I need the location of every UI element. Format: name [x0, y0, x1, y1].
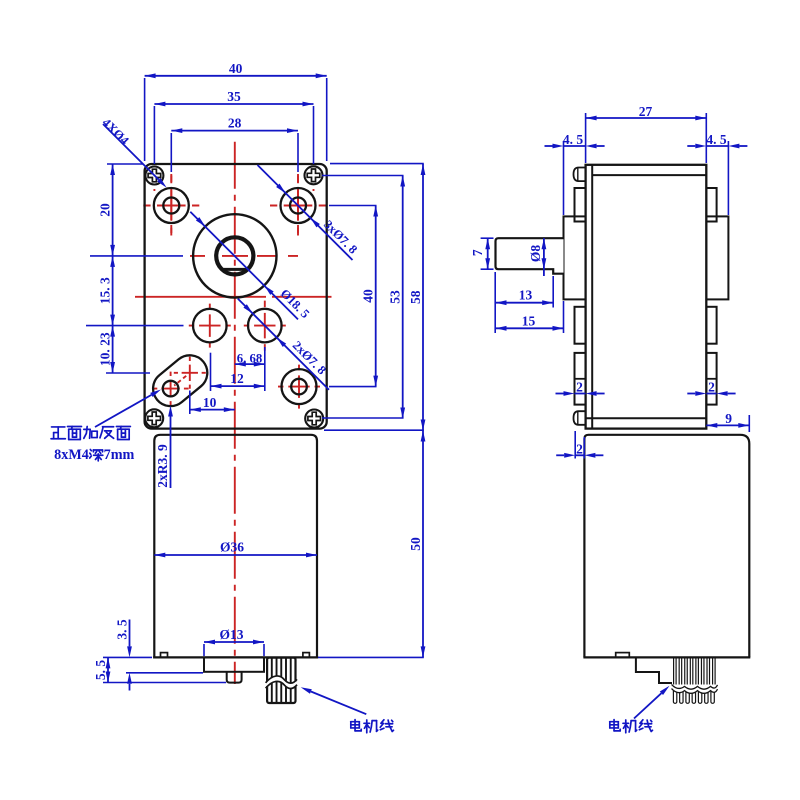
- screw bottom-right: [305, 410, 323, 428]
- dim 5.5: [93, 657, 110, 682]
- side cover plate line: [591, 165, 593, 429]
- centerline cross slot hole: [153, 372, 189, 406]
- svg-text:10. 23: 10. 23: [98, 332, 113, 366]
- svg-text:20: 20: [98, 203, 113, 217]
- dim 58 right: [324, 164, 425, 431]
- centerline cross top-right hole: [270, 176, 326, 236]
- svg-text:15: 15: [522, 314, 536, 329]
- svg-text:28: 28: [228, 116, 242, 131]
- centerline cross mid-left hole: [189, 304, 231, 348]
- centerline horizontal idler axis: [135, 296, 332, 298]
- svg-text:Ø36: Ø36: [220, 540, 244, 555]
- centerline ext top-left hole col: [170, 174, 172, 233]
- side gearbox boss right: [706, 216, 728, 299]
- svg-text:9: 9: [725, 411, 732, 426]
- label 4XO4 leader: [99, 115, 168, 189]
- motor wire bundle front view: [266, 658, 297, 703]
- centerline cross bottom-right hole: [278, 365, 320, 409]
- label motor wires left: [300, 685, 394, 733]
- side motor body: [583, 435, 750, 658]
- svg-text:4. 5: 4. 5: [706, 132, 727, 147]
- motor rear shaft stub: [227, 672, 242, 683]
- dim 12: [211, 353, 265, 391]
- side gearbox tab upper-right: [706, 188, 716, 222]
- hole bottom-right O7.8: [282, 369, 317, 404]
- output shaft circle with D-flat: [216, 237, 253, 274]
- dim 40 right: [329, 206, 378, 387]
- side gearbox tab lower-right: [706, 353, 716, 405]
- ext motor bottom: [103, 656, 152, 658]
- centerline horizontal through gear center: [190, 255, 299, 257]
- motor end cap: [204, 657, 264, 671]
- dim 28: [171, 116, 298, 172]
- svg-text:2: 2: [576, 441, 583, 456]
- dim 2 bottom: [556, 431, 603, 459]
- svg-text:2: 2: [576, 380, 583, 395]
- dim 53 right: [322, 176, 405, 419]
- dim 35: [154, 89, 313, 164]
- svg-text:53: 53: [388, 290, 403, 304]
- svg-text:50: 50: [408, 537, 423, 551]
- svg-text:2: 2: [708, 380, 715, 395]
- dim 10: [190, 391, 235, 415]
- label 2xO7.8 leader: [238, 299, 329, 390]
- svg-text:40: 40: [229, 61, 243, 76]
- side gearbox tab upper-left: [575, 188, 586, 222]
- svg-text:Ø8: Ø8: [528, 245, 543, 263]
- hole top-left O7.8: [154, 188, 189, 223]
- svg-text:58: 58: [408, 290, 423, 304]
- svg-text:3. 5: 3. 5: [115, 619, 130, 640]
- svg-text:6. 68: 6. 68: [237, 351, 263, 365]
- dim O8 shaft: [528, 238, 546, 276]
- centerline slot axis: [174, 376, 186, 386]
- centerline cross top-left hole: [143, 176, 199, 236]
- dim 2 tab right: [687, 380, 735, 396]
- dim 6.68: [235, 347, 265, 391]
- dim 7 shaft: [470, 238, 494, 269]
- side inner bottom line: [586, 417, 707, 419]
- dim 50 right: [318, 431, 425, 658]
- side cap steps: [636, 657, 672, 683]
- side gearbox tab mid-left: [575, 307, 586, 344]
- motor body front view: [153, 435, 318, 658]
- side output shaft: [496, 238, 564, 274]
- dim O13: [204, 627, 264, 656]
- brush tab left: [161, 653, 168, 658]
- svg-text:Ø13: Ø13: [219, 627, 243, 642]
- label 3xO7.8 leader: [258, 165, 361, 260]
- centerline top-right screw: [313, 166, 315, 191]
- dim 20 left: [90, 164, 183, 256]
- slot obround 2xR3.9: [146, 348, 214, 413]
- svg-text:2xR3. 9: 2xR3. 9: [155, 444, 170, 488]
- dim 15: [496, 301, 564, 333]
- centerline vertical main axis (left view): [234, 142, 236, 684]
- side inner top line: [592, 174, 706, 176]
- svg-text:27: 27: [639, 104, 653, 119]
- svg-text:40: 40: [361, 289, 376, 303]
- svg-text:15. 3: 15. 3: [98, 277, 113, 304]
- dim 27: [586, 104, 707, 163]
- label motor wires right: [610, 684, 671, 733]
- dim 2 tab left: [556, 380, 605, 396]
- label 2xR3.9 leader: [155, 406, 173, 489]
- side gearbox boss left: [564, 216, 586, 299]
- dim 4.5 left: [545, 132, 605, 215]
- svg-text:12: 12: [230, 371, 244, 386]
- hole mid-left: [193, 309, 227, 343]
- side gearbox tab mid-right: [706, 307, 716, 344]
- label O18.5 leader: [190, 212, 312, 321]
- svg-text:7: 7: [470, 249, 485, 256]
- centerline ext top-right hole col: [297, 174, 299, 233]
- svg-text:8xM4: 8xM4: [54, 447, 89, 463]
- brush tab right: [303, 653, 310, 658]
- svg-text:10: 10: [203, 395, 217, 410]
- gear boss circle O18.5: [193, 214, 276, 297]
- side gearbox tab lower-left: [575, 353, 586, 405]
- centerline cross slot upper end: [174, 357, 206, 389]
- ext stub bottom: [103, 682, 226, 684]
- centerline top-left screw: [153, 166, 155, 191]
- dim 9: [706, 411, 749, 432]
- svg-text:4. 5: 4. 5: [563, 132, 584, 147]
- screw bottom-left: [145, 409, 163, 427]
- svg-text:35: 35: [227, 89, 241, 104]
- svg-text:13: 13: [519, 288, 533, 303]
- label front-back note: [51, 387, 162, 463]
- screw top-right: [305, 166, 323, 184]
- svg-text:5. 5: 5. 5: [93, 660, 108, 681]
- side gearbox body: [586, 165, 707, 429]
- dim 10.23 left: [98, 326, 150, 373]
- dim 15.3 left: [86, 256, 184, 326]
- side motor wires: [672, 658, 718, 704]
- dim O36: [154, 540, 317, 558]
- dim 40 top: [145, 61, 327, 161]
- screw top-left: [145, 167, 163, 185]
- side screw head bottom: [574, 411, 586, 425]
- centerline cross mid-right hole: [244, 301, 286, 351]
- hole top-right O7.8: [281, 188, 316, 223]
- dim 13: [495, 272, 553, 333]
- hole mid-right: [248, 309, 282, 343]
- gearbox plate outline: [145, 164, 327, 429]
- svg-text:7mm: 7mm: [104, 447, 135, 463]
- dim 4.5 right: [687, 132, 747, 215]
- side brush tab: [616, 653, 630, 658]
- side screw head top: [574, 168, 586, 182]
- ext cap bottom: [126, 672, 203, 674]
- dim 3.5: [115, 619, 132, 690]
